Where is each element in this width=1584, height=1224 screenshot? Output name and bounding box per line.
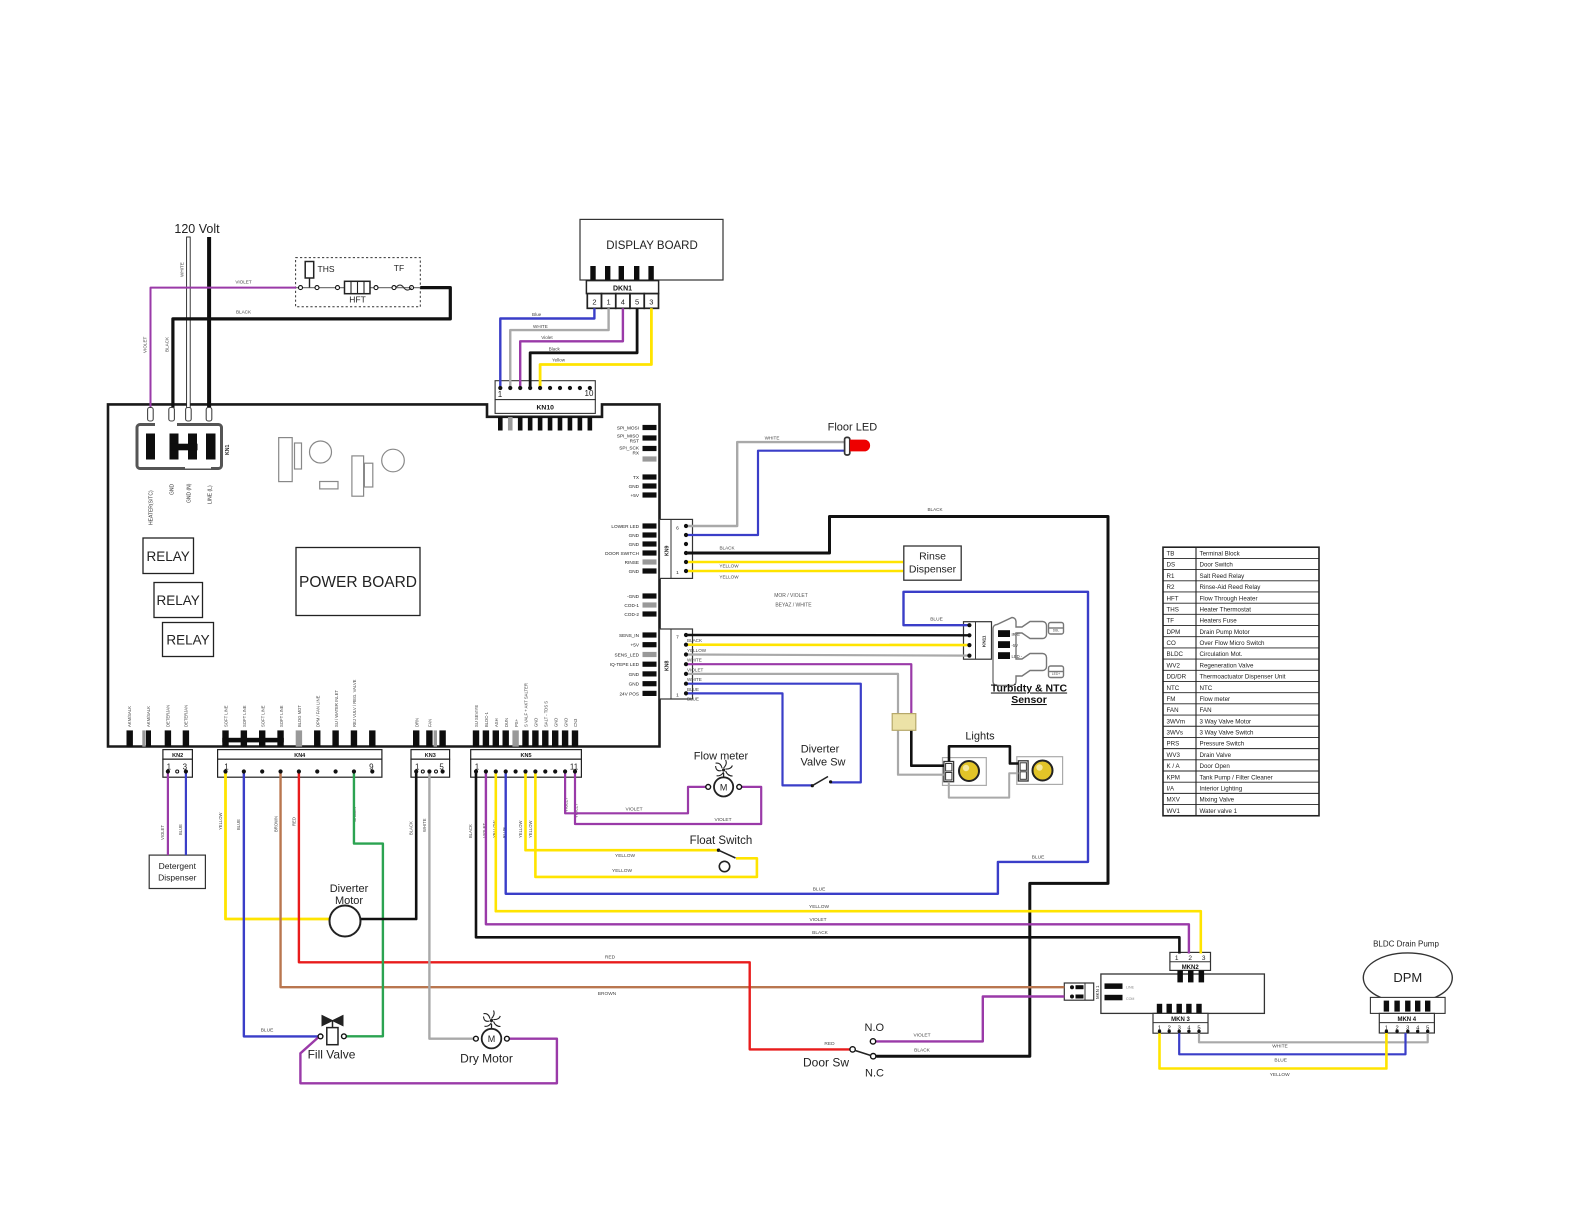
- connector KN10 board pins: [498, 417, 592, 431]
- wire Black DKN1.5-KN10.4: [530, 308, 637, 388]
- switch Float Switch: [690, 835, 753, 872]
- svg-text:BLUE: BLUE: [1274, 1058, 1287, 1064]
- svg-text:GND: GND: [629, 569, 640, 574]
- connector KN5 pin dots: [474, 763, 579, 774]
- connector KN3 pin dots: [414, 763, 445, 774]
- svg-text:BROWN: BROWN: [274, 816, 279, 832]
- svg-text:Floor LED: Floor LED: [828, 422, 878, 434]
- svg-text:IQ-TEPE LED: IQ-TEPE LED: [610, 662, 640, 667]
- svg-text:DKN1: DKN1: [613, 286, 632, 293]
- wire VIOLET KN5.11 flow meter: [575, 772, 761, 825]
- label Turbidty & NTC: [991, 683, 1068, 707]
- svg-text:BLACK: BLACK: [914, 1047, 931, 1053]
- svg-text:RED: RED: [824, 1041, 835, 1047]
- terminal a: [299, 286, 303, 290]
- wire WHITE KN8.3 lights: [686, 674, 944, 775]
- svg-text:WHITE: WHITE: [765, 436, 780, 441]
- wire BLACK return HFT to KN1: [173, 288, 450, 410]
- svg-text:VIOLET: VIOLET: [625, 807, 642, 813]
- svg-text:Float Switch: Float Switch: [690, 835, 753, 847]
- svg-text:DOOR SWITCH: DOOR SWITCH: [605, 551, 639, 556]
- svg-text:K / A: K / A: [1167, 763, 1181, 770]
- svg-text:120 Volt: 120 Volt: [174, 222, 220, 236]
- svg-text:REJ VULV / REG. VALVE: REJ VULV / REG. VALVE: [352, 679, 357, 727]
- svg-text:RELAY: RELAY: [166, 633, 209, 648]
- connector MKN4 pins: [1385, 1025, 1430, 1033]
- wire BLUE KN2.3 detergent: [185, 772, 187, 856]
- svg-text:MKN2: MKN2: [1182, 965, 1200, 971]
- svg-text:1: 1: [1175, 955, 1179, 962]
- svg-text:BLUE: BLUE: [687, 697, 699, 702]
- wire BLUE KN9.5 floor led: [686, 451, 845, 535]
- svg-text:COD-2: COD-2: [624, 612, 639, 617]
- svg-text:WHITE: WHITE: [533, 324, 548, 329]
- svg-text:YELLOW: YELLOW: [615, 853, 635, 859]
- svg-text:SPI_MOSI: SPI_MOSI: [617, 426, 639, 431]
- svg-text:Violet: Violet: [541, 335, 553, 340]
- svg-text:SOFT LINE: SOFT LINE: [224, 705, 229, 727]
- svg-text:2: 2: [1188, 955, 1192, 962]
- wire BLUE KN8.2 dvsw: [686, 684, 861, 783]
- svg-text:WHITE: WHITE: [1272, 1044, 1287, 1050]
- svg-text:SOFT LINE: SOFT LINE: [279, 705, 284, 727]
- wire YELLOW MKN3.1-MKN4.1: [1160, 1033, 1387, 1069]
- svg-text:DBL: DBL: [1053, 629, 1060, 633]
- svg-text:Dispenser: Dispenser: [158, 873, 196, 883]
- svg-text:RST: RST: [630, 439, 640, 444]
- svg-text:Detergent: Detergent: [159, 861, 197, 871]
- svg-text:BLACK: BLACK: [468, 824, 473, 838]
- svg-text:VIOLET: VIOLET: [143, 336, 148, 353]
- svg-text:BLDG MOT: BLDG MOT: [297, 705, 302, 727]
- wire VIOLET KN8.4 junction: [686, 664, 911, 714]
- svg-text:TX: TX: [633, 475, 640, 480]
- svg-text:1: 1: [676, 693, 679, 699]
- svg-text:FM: FM: [1167, 696, 1176, 703]
- TX GND 5V stubs: [643, 474, 657, 497]
- svg-text:KN11: KN11: [982, 635, 987, 647]
- svg-text:DETERJAN: DETERJAN: [166, 705, 171, 727]
- svg-text:Black: Black: [549, 346, 561, 351]
- svg-text:BLUE: BLUE: [687, 687, 699, 692]
- rinse dispenser box: [904, 546, 961, 580]
- wire BLACK KN9.3 door chain: [686, 517, 1108, 1057]
- svg-text:WHITE: WHITE: [687, 677, 702, 682]
- wire BLUE KN5.4-KN11.1: [506, 592, 1088, 894]
- svg-text:CN3: CN3: [573, 718, 578, 727]
- svg-text:Lights: Lights: [965, 731, 995, 743]
- svg-text:YELLOW: YELLOW: [687, 648, 707, 653]
- wire Violet DKN1.4-KN10.3: [520, 308, 623, 388]
- wire RED KN4.5 door sw: [299, 772, 850, 1050]
- wire WHITE KN3.3 dry motor: [429, 772, 473, 1039]
- wire YELLOW KN5.7 float sw: [535, 772, 757, 877]
- svg-text:3WVm: 3WVm: [1167, 718, 1186, 725]
- relay R2: [154, 583, 203, 618]
- svg-text:VIOLET: VIOLET: [714, 817, 731, 823]
- svg-text:SOFT LINE: SOFT LINE: [260, 705, 265, 727]
- svg-text:LED -: LED -: [1012, 654, 1023, 659]
- svg-text:AKM/SALK: AKM/SALK: [127, 706, 132, 727]
- svg-text:COD-1: COD-1: [624, 603, 639, 608]
- svg-text:KN5: KN5: [521, 753, 532, 759]
- svg-text:BLACK: BLACK: [687, 638, 703, 643]
- sensor Turbidity body: [993, 618, 1064, 686]
- svg-text:MKN 1: MKN 1: [1095, 985, 1100, 999]
- svg-text:BLUE: BLUE: [930, 617, 943, 623]
- svg-text:VIOLET: VIOLET: [687, 667, 704, 672]
- display board pins: [590, 266, 654, 281]
- svg-text:KN2: KN2: [172, 753, 183, 759]
- motor Diverter Motor: [330, 883, 369, 937]
- svg-text:3WVs: 3WVs: [1167, 730, 1184, 737]
- pump DPM: [1363, 940, 1452, 1003]
- wire YELLOW KN5.3-MKN2.3: [496, 772, 1201, 954]
- wire VIOLET door NO to MKN1: [876, 997, 1064, 1042]
- motor Dry Motor: [460, 1011, 513, 1066]
- KN3 pins: [413, 730, 446, 746]
- svg-text:YELLOW: YELLOW: [719, 575, 739, 580]
- connector KN9 dots: [684, 524, 688, 573]
- svg-text:BLUE: BLUE: [178, 824, 183, 835]
- svg-text:IR-E: IR-E: [1012, 632, 1021, 637]
- connector KN2 pins: [166, 763, 188, 774]
- connector KN11 dots: [967, 623, 971, 658]
- svg-text:Interior Lighting: Interior Lighting: [1200, 785, 1243, 792]
- connector KN8 body: [660, 629, 693, 699]
- svg-text:-5V: -5V: [1012, 643, 1019, 648]
- wire BLUE KN4.2 fill valve: [244, 772, 318, 1037]
- svg-text:1: 1: [498, 390, 503, 399]
- svg-text:Terminal Block: Terminal Block: [1200, 551, 1241, 558]
- svg-text:YELLOW: YELLOW: [518, 820, 523, 838]
- wire WHITE KN9.6 floor led: [686, 442, 845, 526]
- svg-text:1: 1: [607, 297, 611, 306]
- svg-text:BLUE: BLUE: [813, 887, 826, 893]
- wire VIOLET KN2.1 detergent: [167, 772, 169, 856]
- svg-text:YELLOW: YELLOW: [218, 812, 223, 830]
- svg-text:BLUE: BLUE: [1032, 855, 1045, 861]
- KN4 pins and soft-line bus: [222, 730, 375, 746]
- svg-text:LINE (L): LINE (L): [208, 485, 214, 504]
- svg-text:LINE: LINE: [1126, 986, 1135, 990]
- svg-text:R2: R2: [1167, 584, 1175, 591]
- wire VIOLET KN5.10 flow meter: [565, 772, 706, 814]
- svg-text:VIOLET: VIOLET: [235, 280, 252, 285]
- svg-text:WV1: WV1: [1167, 808, 1181, 815]
- wire BLACK KN5.1-MKN2.1: [476, 772, 1179, 954]
- display board box: [580, 219, 723, 280]
- svg-text:BEYAZ / WHITE: BEYAZ / WHITE: [775, 603, 812, 609]
- wire White DKN1.1-KN10.2: [510, 308, 608, 388]
- svg-text:SENS_IN: SENS_IN: [619, 633, 639, 638]
- svg-text:PRS: PRS: [1167, 741, 1180, 748]
- component outlines: [279, 438, 405, 497]
- svg-text:POWER BOARD: POWER BOARD: [299, 574, 417, 591]
- svg-text:N.C: N.C: [865, 1067, 884, 1079]
- connector MKN3 pins: [1158, 1025, 1201, 1033]
- svg-text:SENS_LED: SENS_LED: [615, 653, 640, 658]
- svg-text:DISPLAY BOARD: DISPLAY BOARD: [606, 240, 698, 252]
- svg-text:HFT: HFT: [349, 295, 366, 305]
- connector KN4 pin dots: [223, 763, 374, 774]
- connector KN2 body: [163, 750, 193, 778]
- left bottom stubs + KN2 pins: [127, 730, 190, 746]
- heater element HFT: [345, 281, 371, 304]
- wire BLACK junction lights: [911, 730, 944, 765]
- svg-text:BLACK: BLACK: [409, 821, 414, 835]
- connector KN3 body: [411, 750, 450, 778]
- svg-text:MKN 3: MKN 3: [1171, 1017, 1190, 1023]
- svg-text:RINSE: RINSE: [625, 560, 639, 565]
- connector KN9 body: [660, 519, 693, 578]
- svg-text:KN9: KN9: [665, 546, 671, 556]
- svg-text:FAN: FAN: [1167, 707, 1179, 714]
- terminal b: [315, 286, 319, 290]
- relay R3: [163, 623, 214, 657]
- svg-text:Flow meter: Flow meter: [694, 751, 749, 763]
- detergent dispenser box: [149, 855, 205, 888]
- svg-text:Yellow: Yellow: [552, 358, 566, 363]
- connector KN1: [137, 423, 222, 469]
- svg-text:2: 2: [592, 297, 596, 306]
- svg-text:Dispenser: Dispenser: [909, 564, 957, 576]
- svg-text:DRN: DRN: [414, 718, 419, 727]
- svg-text:BLDC Drain Pump: BLDC Drain Pump: [1373, 940, 1439, 949]
- power board outline: [108, 404, 660, 746]
- svg-text:GND: GND: [629, 672, 640, 677]
- svg-text:LED+: LED+: [1052, 672, 1061, 676]
- svg-text:YELLOW: YELLOW: [719, 564, 739, 569]
- svg-text:Valve Sw: Valve Sw: [800, 757, 845, 769]
- relay R1: [143, 538, 194, 574]
- svg-text:DETERJAN: DETERJAN: [184, 705, 189, 727]
- svg-text:LOWER LED: LOWER LED: [611, 524, 639, 529]
- svg-text:FAN: FAN: [1200, 707, 1212, 714]
- connector MKN1 body: [1064, 983, 1100, 1000]
- connector MKN2 numbers: [1175, 955, 1206, 962]
- wire WHITE neutral 120V to KN1: [187, 237, 191, 409]
- svg-text:3 Way Valve Motor: 3 Way Valve Motor: [1200, 718, 1252, 725]
- drain pump control board: [1101, 974, 1265, 1013]
- wire VIOLET KN5.2-MKN2.2: [486, 772, 1189, 954]
- svg-text:Dry Motor: Dry Motor: [460, 1052, 513, 1066]
- fuse TF: [374, 263, 414, 290]
- svg-text:KN1: KN1: [225, 445, 231, 455]
- svg-text:Circulation Mot.: Circulation Mot.: [1200, 651, 1243, 658]
- connector DKN1 pin cells: [587, 294, 658, 309]
- svg-text:Motor: Motor: [335, 895, 363, 907]
- svg-text:NTC: NTC: [1167, 685, 1180, 692]
- wire YELLOW KN8.6-KN11.3: [686, 643, 969, 646]
- DPM pedestal: [1370, 997, 1445, 1013]
- wire BROWN KN4.4 MKN1: [281, 772, 1065, 988]
- svg-text:BLACK: BLACK: [719, 546, 735, 551]
- svg-text:WV2: WV2: [1167, 662, 1181, 669]
- svg-text:Sensor: Sensor: [1011, 694, 1047, 706]
- wire GREEN KN4.8 fill valve: [346, 772, 383, 1037]
- svg-text:Rinse: Rinse: [919, 551, 946, 563]
- KN9 pin stubs: [643, 523, 657, 573]
- svg-text:R1: R1: [1167, 573, 1175, 580]
- svg-text:4: 4: [621, 297, 625, 306]
- svg-text:COM: COM: [1126, 997, 1134, 1001]
- power board title box: [296, 548, 420, 616]
- connector KN1 top pins: [148, 408, 212, 422]
- svg-text:WHITE: WHITE: [422, 818, 427, 832]
- svg-text:BLUE: BLUE: [236, 819, 241, 830]
- svg-text:AKM/SALK: AKM/SALK: [146, 706, 151, 727]
- svg-text:Tank Pump / Filter Cleaner: Tank Pump / Filter Cleaner: [1200, 774, 1273, 781]
- svg-text:SALT - TDS S: SALT - TDS S: [544, 701, 549, 727]
- svg-text:GND (N): GND (N): [187, 483, 193, 503]
- svg-text:THS: THS: [1167, 606, 1179, 613]
- connector MKN2 body: [1170, 952, 1211, 982]
- svg-text:3: 3: [649, 297, 653, 306]
- wire VIOLET fill valve to dry motor: [300, 1038, 557, 1084]
- LED module 1: [943, 758, 987, 786]
- svg-text:WHITE: WHITE: [687, 658, 702, 663]
- svg-text:YELLOW: YELLOW: [1270, 1072, 1290, 1078]
- svg-text:TF: TF: [394, 263, 404, 273]
- heater circuit dashed enclosure: [296, 258, 421, 307]
- svg-text:Door Switch: Door Switch: [1200, 562, 1234, 569]
- svg-text:BROWN: BROWN: [598, 991, 617, 997]
- sensor pins: [998, 630, 1010, 659]
- wire through heater box: [296, 287, 421, 289]
- wire Blue DKN1.2-KN10.1: [500, 308, 594, 388]
- junction thermal fuse: [892, 714, 916, 731]
- svg-text:3: 3: [1202, 955, 1206, 962]
- wire BLACK line 120V to KN1: [207, 237, 211, 421]
- svg-text:Thermoactuator Dispenser Unit: Thermoactuator Dispenser Unit: [1200, 674, 1286, 681]
- svg-text:Drain Pump Motor: Drain Pump Motor: [1200, 629, 1250, 636]
- svg-text:FAN: FAN: [428, 719, 433, 727]
- wire WHITE lights bridge: [949, 773, 1019, 797]
- LED module 2: [1017, 757, 1063, 785]
- KN5 pins: [473, 730, 578, 746]
- LED Floor LED: [845, 437, 871, 455]
- wire YELLOW KN9.2 rinse: [686, 561, 903, 564]
- svg-text:MXV: MXV: [1167, 797, 1181, 804]
- svg-text:GND: GND: [553, 718, 558, 727]
- svg-text:GND: GND: [629, 542, 640, 547]
- svg-text:BLACK: BLACK: [236, 310, 252, 315]
- svg-text:10: 10: [585, 389, 594, 398]
- COD stubs: [643, 593, 657, 616]
- svg-text:Drain Valve: Drain Valve: [1200, 752, 1232, 759]
- wire BLACK lights bridge: [949, 746, 1018, 763]
- connector KN5 body: [471, 750, 582, 778]
- connector KN4 body: [218, 750, 382, 778]
- svg-text:GND: GND: [534, 718, 539, 727]
- wire Yellow DKN1.3-KN10.5: [540, 308, 651, 388]
- connector MKN3 body: [1153, 1013, 1208, 1033]
- valve Fill Valve: [308, 1016, 356, 1062]
- svg-text:HEATER(S/TC): HEATER(S/TC): [149, 490, 155, 525]
- svg-text:DS: DS: [1167, 562, 1176, 569]
- svg-text:SOFT LINE: SOFT LINE: [242, 705, 247, 727]
- switch Diverter Valve Sw: [800, 744, 845, 788]
- svg-text:HFT: HFT: [1167, 595, 1179, 602]
- connector MKN1 dots: [1070, 985, 1074, 998]
- wire WHITE KN8.5-KN11.4: [686, 655, 969, 656]
- wire WHITE MKN3.5-MKN4.5: [1199, 1033, 1428, 1042]
- svg-text:Pressure Switch: Pressure Switch: [1200, 741, 1245, 748]
- svg-text:VIOLET: VIOLET: [913, 1032, 930, 1038]
- svg-text:MOR / VIOLET: MOR / VIOLET: [774, 593, 808, 599]
- svg-text:WV3: WV3: [1167, 752, 1181, 759]
- svg-text:BLUE: BLUE: [261, 1028, 274, 1034]
- terminal c: [336, 286, 340, 290]
- svg-text:THS: THS: [318, 264, 335, 274]
- switch Door Sw: [803, 1022, 885, 1080]
- svg-text:I/A: I/A: [1167, 785, 1175, 792]
- svg-text:BLACK: BLACK: [165, 336, 170, 352]
- svg-text:KN4: KN4: [294, 753, 306, 759]
- svg-text:Salt Reed Relay: Salt Reed Relay: [1200, 573, 1246, 580]
- svg-text:DPM: DPM: [1393, 970, 1422, 985]
- connector KN11 body: [964, 622, 992, 660]
- svg-text:RX: RX: [632, 451, 639, 456]
- svg-text:6: 6: [676, 526, 679, 532]
- svg-text:3 Way Valve Switch: 3 Way Valve Switch: [1200, 730, 1255, 737]
- svg-text:Fill Valve: Fill Valve: [308, 1048, 356, 1062]
- svg-text:TB: TB: [1167, 551, 1175, 558]
- connector KN8 dots: [684, 633, 688, 696]
- svg-text:KN8: KN8: [665, 661, 671, 671]
- wire YELLOW KN5.6 float sw: [526, 772, 719, 851]
- svg-text:YELLOW: YELLOW: [612, 868, 632, 874]
- svg-text:KN3: KN3: [425, 753, 436, 759]
- svg-text:YELLOW: YELLOW: [528, 820, 533, 838]
- svg-text:MKN 4: MKN 4: [1397, 1017, 1416, 1023]
- wire BLACK KN3.1 divmotor: [361, 772, 417, 920]
- svg-text:RED: RED: [605, 955, 616, 961]
- svg-text:Water valve 1: Water valve 1: [1200, 808, 1238, 815]
- svg-text:VIOLET: VIOLET: [809, 917, 826, 923]
- svg-text:-GND: -GND: [627, 594, 640, 599]
- svg-text:Regeneration Valve: Regeneration Valve: [1200, 662, 1254, 669]
- svg-text:RED: RED: [292, 817, 297, 826]
- connector KN10 dots: [498, 386, 592, 390]
- svg-text:TF: TF: [1167, 618, 1175, 625]
- svg-text:24V POS: 24V POS: [619, 691, 639, 696]
- svg-text:GND: GND: [629, 533, 640, 538]
- svg-text:1: 1: [676, 570, 679, 576]
- KN8 pin stubs: [643, 632, 657, 696]
- svg-text:Diverter: Diverter: [801, 744, 840, 756]
- MKN3 board pins: [1157, 1004, 1202, 1014]
- svg-text:Flow meter: Flow meter: [1200, 696, 1231, 703]
- svg-text:Turbidty & NTC: Turbidty & NTC: [991, 683, 1068, 695]
- svg-text:ASH: ASH: [494, 718, 499, 727]
- wire YELLOW KN9.1 rinse: [686, 570, 903, 573]
- svg-text:Diverter: Diverter: [330, 883, 369, 895]
- svg-text:NTC: NTC: [1200, 685, 1213, 692]
- svg-text:DD/DR: DD/DR: [1167, 674, 1187, 681]
- svg-text:+5V: +5V: [631, 493, 640, 498]
- svg-text:N.O: N.O: [865, 1022, 885, 1034]
- svg-text:Door Sw: Door Sw: [803, 1056, 849, 1070]
- wire BLACK KN8.7-KN11.2: [686, 634, 969, 637]
- svg-text:Rinse-Aid Reed Relay: Rinse-Aid Reed Relay: [1200, 584, 1262, 591]
- svg-text:Over Flow Micro Switch: Over Flow Micro Switch: [1200, 640, 1266, 647]
- svg-text:SU SEVIYE: SU SEVIYE: [474, 705, 479, 727]
- svg-text:PS+: PS+: [514, 718, 519, 727]
- svg-text:S VALF + AKT SALTER: S VALF + AKT SALTER: [524, 683, 529, 727]
- wire VIOLET KN1 heater to THS: [151, 288, 297, 410]
